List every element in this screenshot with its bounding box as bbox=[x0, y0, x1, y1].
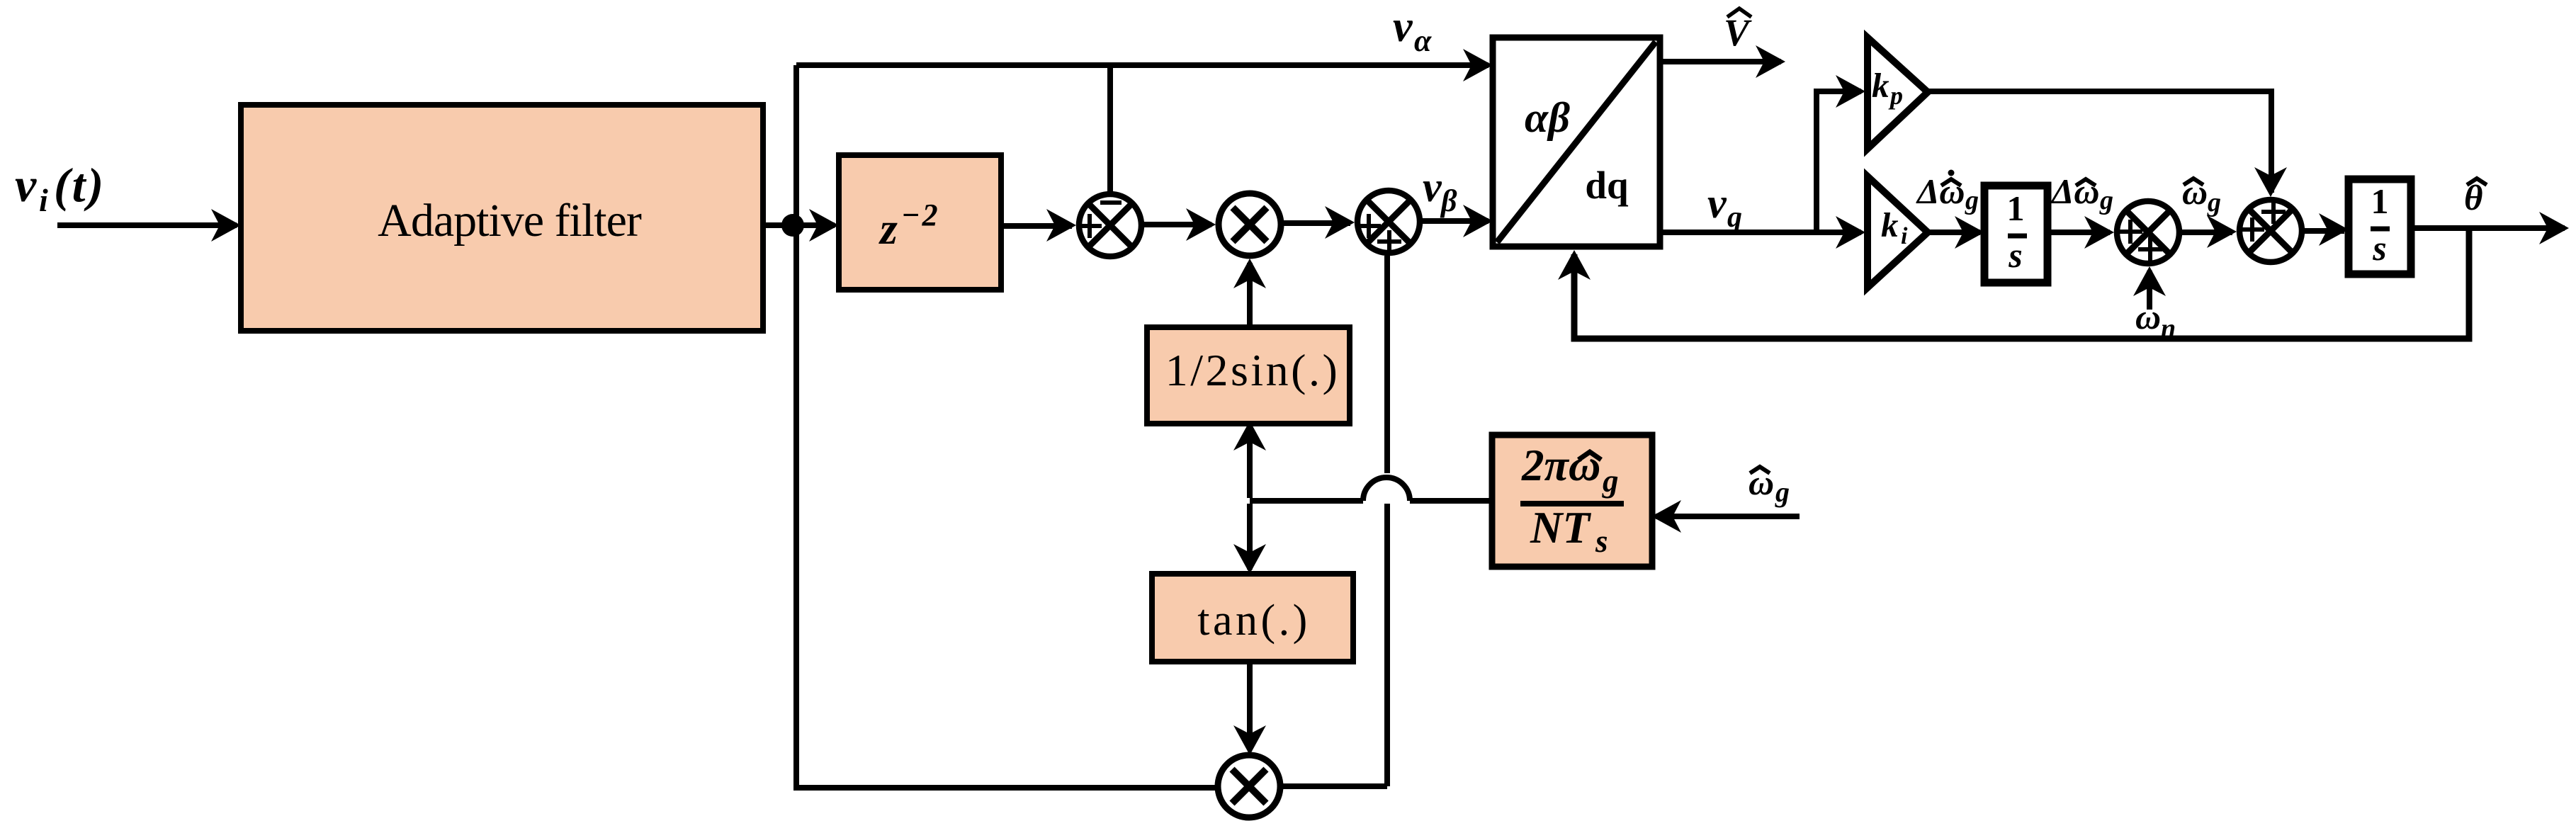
svg-text:g: g bbox=[1775, 476, 1790, 508]
gain k_i bbox=[1868, 176, 1928, 288]
wire theta-hat output bbox=[2411, 225, 2565, 231]
svg-text:v: v bbox=[1423, 164, 1442, 210]
svg-text:g: g bbox=[1965, 186, 1979, 215]
wire sum R2 to integrator 2 bbox=[2302, 228, 2344, 234]
wire down into tan bbox=[1247, 504, 1253, 570]
svg-text:s: s bbox=[2008, 235, 2022, 275]
svg-text:p: p bbox=[1888, 81, 1903, 110]
wire v_alpha drop to sum1 bbox=[1107, 65, 1113, 194]
svg-text:s: s bbox=[1595, 523, 1608, 559]
wire M2 output right and up to sum2 bbox=[1280, 256, 1387, 786]
svg-text:v: v bbox=[1393, 3, 1413, 51]
wire omega-hat g input to 2pi box bbox=[1656, 514, 1800, 519]
svg-text:αβ: αβ bbox=[1525, 94, 1570, 141]
svg-text:1/2sin(.): 1/2sin(.) bbox=[1165, 345, 1340, 395]
gain k_p bbox=[1868, 38, 1928, 149]
svg-text:i: i bbox=[39, 182, 48, 218]
block 1/2sin(.) bbox=[1147, 327, 1350, 424]
wire input v_i(t) bbox=[57, 222, 237, 228]
svg-text:NT: NT bbox=[1530, 503, 1591, 553]
wire V-hat output bbox=[1660, 59, 1781, 64]
svg-text:Adaptive filter: Adaptive filter bbox=[378, 195, 642, 247]
svg-text:1: 1 bbox=[2007, 188, 2025, 228]
label omega-hat g bbox=[2182, 172, 2221, 217]
svg-text:Δω: Δω bbox=[2050, 171, 2100, 211]
svg-text:s: s bbox=[2372, 228, 2386, 268]
wire sum R1 to sum R2 bbox=[2179, 230, 2232, 235]
svg-text:β: β bbox=[1440, 183, 1457, 218]
wire horizontal from 2pi box with hop bbox=[1250, 498, 1495, 504]
svg-text:−2: −2 bbox=[901, 198, 940, 232]
summing junction R2 bbox=[2239, 200, 2302, 262]
label Delta omega-hat g bbox=[2050, 171, 2113, 215]
block integrator 1/s #1 bbox=[1984, 186, 2047, 283]
svg-text:dq: dq bbox=[1585, 164, 1629, 207]
wire into 1/2sin from below bbox=[1247, 425, 1253, 498]
wire M1 to sum2 bbox=[1281, 220, 1350, 226]
svg-text:Δω: Δω bbox=[1916, 171, 1965, 211]
svg-text:g: g bbox=[2207, 188, 2221, 217]
svg-text:ω: ω bbox=[2135, 297, 2161, 336]
wire sum1 to multiplier M1 bbox=[1141, 222, 1211, 227]
svg-text:v: v bbox=[1707, 180, 1727, 227]
wire z-2 to sum1 bbox=[1001, 223, 1072, 229]
svg-text:g: g bbox=[1602, 463, 1619, 499]
wire tan output down to M2 bbox=[1247, 662, 1253, 749]
label theta-hat bbox=[2464, 179, 2487, 218]
block Adaptive filter bbox=[241, 105, 763, 331]
block z^-2 bbox=[839, 155, 1001, 290]
wire v_alpha top bbox=[796, 62, 1488, 68]
label omega-hat g input bbox=[1749, 463, 1790, 508]
svg-text:q: q bbox=[1727, 201, 1742, 234]
wire integrator1 to sum R1 bbox=[2047, 230, 2110, 235]
svg-text:i: i bbox=[1901, 223, 1908, 249]
svg-text:z: z bbox=[879, 203, 898, 254]
node after Adaptive filter bbox=[781, 214, 804, 237]
svg-text:2πω: 2πω bbox=[1521, 441, 1600, 490]
wire 1/2sin output up to M1 bbox=[1247, 263, 1253, 329]
svg-text:k: k bbox=[1881, 205, 1899, 244]
wire node branch vertical and bottom run bbox=[796, 65, 1219, 788]
label Delta omega-hat-dot g bbox=[1916, 170, 1979, 216]
summing junction S1 bbox=[1078, 194, 1141, 256]
wire v_q output bbox=[1660, 230, 1861, 235]
svg-text:(t): (t) bbox=[54, 158, 106, 212]
block integrator 1/s #2 bbox=[2349, 179, 2411, 274]
multiplier M2 bottom bbox=[1218, 755, 1280, 817]
svg-text:k: k bbox=[1872, 66, 1889, 105]
svg-text:tan(.): tan(.) bbox=[1197, 596, 1311, 645]
wire AF output to z-2 bbox=[763, 222, 835, 228]
svg-text:α: α bbox=[1414, 23, 1432, 58]
summing junction S2 bbox=[1357, 191, 1420, 253]
multiplier M1 bbox=[1219, 193, 1281, 256]
svg-text:g: g bbox=[2099, 186, 2113, 215]
wire sum2 to ab/dq bbox=[1420, 218, 1488, 224]
wire k_p output to sum R2 bbox=[1926, 91, 2271, 193]
wire branch up to k_p bbox=[1817, 91, 1861, 232]
block tan(.) bbox=[1152, 574, 1353, 662]
block alphabeta/dq bbox=[1493, 38, 1660, 247]
hop of horizontal wire over vertical wire bbox=[1363, 477, 1410, 501]
svg-text:1: 1 bbox=[2371, 181, 2389, 221]
summing junction R1 bbox=[2117, 201, 2179, 264]
block 2pi omega / NTs bbox=[1492, 435, 1652, 567]
wire omega_n input bbox=[2147, 271, 2152, 310]
svg-text:v: v bbox=[15, 158, 37, 212]
wire feedback theta to dq bbox=[1574, 228, 2469, 339]
wire k_i to integrator 1 bbox=[1926, 230, 1980, 235]
